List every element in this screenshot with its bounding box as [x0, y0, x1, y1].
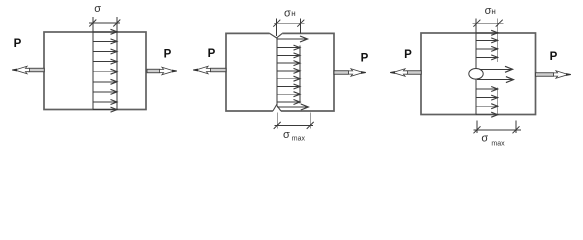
node: stress base line fig3 (below hole): [475, 79, 477, 114]
svg-text:σ: σ: [94, 3, 101, 15]
force arrow left fig2: [193, 66, 226, 74]
svg-text:P: P: [550, 51, 558, 63]
bottom stress arrows fig3: [476, 89, 497, 115]
svg-text:σ: σ: [481, 133, 488, 145]
plate rectangle fig1: [44, 32, 146, 110]
node: stress base line fig3 (above hole): [475, 19, 477, 69]
top stress arrows fig3: [476, 33, 497, 58]
node: stress base line fig2: [276, 38, 278, 105]
plate with notches fig2: [226, 33, 334, 111]
notch V top fig2: [270, 33, 283, 38]
force arrow left fig3: [390, 69, 421, 77]
force arrow right fig1: [147, 67, 177, 75]
node: section line fig3 upper: [497, 19, 499, 63]
force arrow right fig2: [334, 69, 366, 77]
node: stress base line fig1: [92, 17, 94, 110]
node: section line fig3 lower: [497, 88, 499, 115]
svg-text:max: max: [491, 140, 505, 147]
svg-text:σ: σ: [283, 129, 290, 141]
svg-text:P: P: [208, 48, 216, 60]
top dimension fig2: [276, 19, 278, 37]
bottom dimension fig2: [276, 113, 278, 129]
svg-text:P: P: [361, 53, 369, 65]
svg-text:P: P: [14, 38, 22, 50]
bottom dimension fig3: [476, 121, 478, 134]
svg-text:max: max: [292, 136, 306, 143]
node: section line fig1: [116, 17, 118, 110]
force arrow right fig3: [536, 71, 571, 79]
node: section/envelope line fig2: [299, 46, 301, 104]
svg-text:н: н: [491, 7, 495, 16]
wire: stress arrows fig1: [93, 32, 116, 110]
top dimension fig3: [473, 22, 504, 24]
svg-text:P: P: [404, 49, 412, 61]
long bottom stress arrow fig2: [277, 106, 307, 108]
notch V bottom fig2: [273, 105, 281, 111]
long top stress arrow fig2: [277, 38, 306, 40]
long stress arrows at hole fig3: [477, 68, 511, 70]
force arrow left fig1: [12, 66, 44, 74]
plate rectangle fig3: [421, 33, 536, 115]
svg-text:σ: σ: [284, 7, 291, 19]
svg-text:н: н: [291, 9, 295, 18]
mid stress arrows fig2: [277, 48, 299, 102]
dimension line sigma fig1: [89, 22, 120, 24]
svg-text:P: P: [164, 49, 172, 61]
hole ellipse fig3: [469, 69, 483, 80]
